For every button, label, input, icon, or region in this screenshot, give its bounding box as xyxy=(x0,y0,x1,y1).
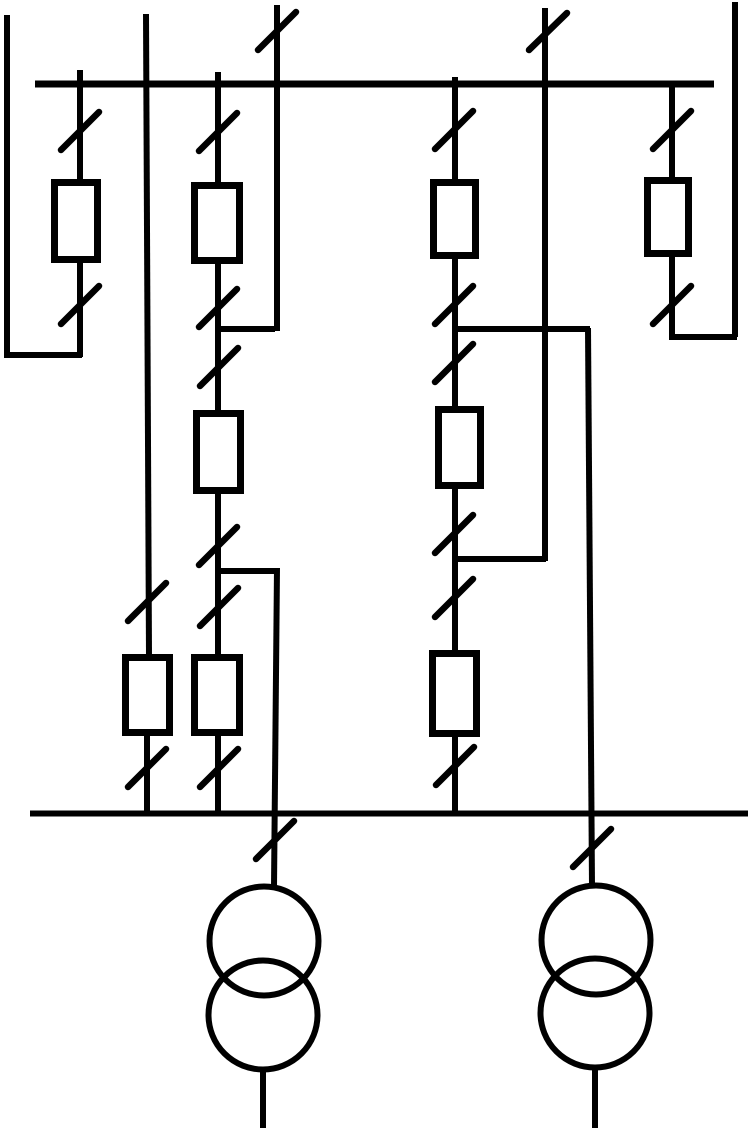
disconnector DS1b xyxy=(61,286,99,324)
wire feeder4 seg2 xyxy=(452,256,458,409)
disconnector DS6d xyxy=(435,515,473,553)
wire W2 long vertical xyxy=(146,14,149,657)
wire feeder2 seg4 xyxy=(215,733,221,815)
wire tie mid-right horizontal xyxy=(455,556,546,562)
node feeder1 bus stub xyxy=(77,70,83,84)
disconnector DS3d xyxy=(199,527,237,565)
transformer T1 primary winding xyxy=(210,887,319,996)
breaker CB7 xyxy=(439,410,481,486)
breaker CB3 xyxy=(195,186,240,261)
breaker CB6 xyxy=(434,183,476,256)
wire left bypass bottom xyxy=(4,352,82,358)
transformer T1 secondary winding xyxy=(209,961,318,1070)
wire feeder4 seg1 xyxy=(452,84,458,182)
top busbar xyxy=(35,81,714,88)
node feeder2 bus stub xyxy=(215,72,221,84)
disconnector DS1a xyxy=(61,112,99,150)
node feeder4 bus stub xyxy=(452,77,458,84)
disconnector DS9b xyxy=(653,286,691,324)
wire feeder6 seg2 xyxy=(669,254,675,340)
wire feeder6 seg1 xyxy=(669,84,675,180)
disconnector DS6f xyxy=(436,747,474,785)
wire feeder4 seg3 xyxy=(452,486,458,653)
wire T2 tail xyxy=(592,1067,598,1128)
disconnector DS7 above bus xyxy=(529,13,567,50)
breaker CB1 xyxy=(55,183,98,260)
wire feeder4 seg4 xyxy=(452,734,458,815)
disconnector DS8 below bottom bus xyxy=(573,829,611,867)
disconnector DS3a xyxy=(199,113,237,151)
wire W2 below breaker xyxy=(144,733,150,815)
disconnector DS6b xyxy=(435,286,473,324)
disconnector DS3f xyxy=(200,749,238,787)
wire W7 transformer feed vertical xyxy=(588,328,592,886)
breaker CB4 xyxy=(197,414,241,491)
disconnector DS9a xyxy=(653,111,691,149)
disconnector DS6a xyxy=(435,111,473,149)
disconnector DS6c xyxy=(435,344,473,382)
wire W4b transformer feed vertical xyxy=(274,568,277,887)
disconnector DS3c xyxy=(200,348,238,386)
disconnector DS6e xyxy=(435,579,473,617)
wire T1 tail xyxy=(260,1069,266,1128)
wire W4a top vertical xyxy=(274,5,280,331)
transformer T2 primary winding xyxy=(542,886,651,995)
breaker CB2 xyxy=(126,658,170,733)
wire right bypass vertical xyxy=(732,2,738,337)
disconnector DS5 below bottom bus xyxy=(256,821,294,859)
wire W6 vertical from top xyxy=(542,8,548,561)
breaker CB5 xyxy=(195,658,240,733)
wire tie lower-left horizontal xyxy=(218,568,275,574)
wire feeder2 seg2 xyxy=(215,261,221,413)
wire feeder1 upper xyxy=(77,84,83,182)
disconnector DS2a xyxy=(128,583,166,621)
disconnector DS3e xyxy=(200,588,238,626)
disconnector DS3b xyxy=(199,289,237,327)
bottom busbar xyxy=(30,811,748,817)
wire feeder1 lower xyxy=(77,260,83,357)
wire right loop bottom xyxy=(670,334,737,340)
disconnector DS2b xyxy=(128,749,166,787)
wire feeder2 seg3 xyxy=(215,491,221,657)
wire tie upper-left horizontal xyxy=(218,326,275,332)
wire left bypass vertical xyxy=(4,15,10,358)
disconnector DS4 above bus xyxy=(258,12,296,50)
wire tie upper-right horizontal xyxy=(455,326,590,332)
breaker CB8 xyxy=(433,654,477,734)
breaker CB9 xyxy=(648,181,689,254)
wire feeder2 seg1 xyxy=(215,84,221,185)
transformer T2 secondary winding xyxy=(541,959,650,1068)
